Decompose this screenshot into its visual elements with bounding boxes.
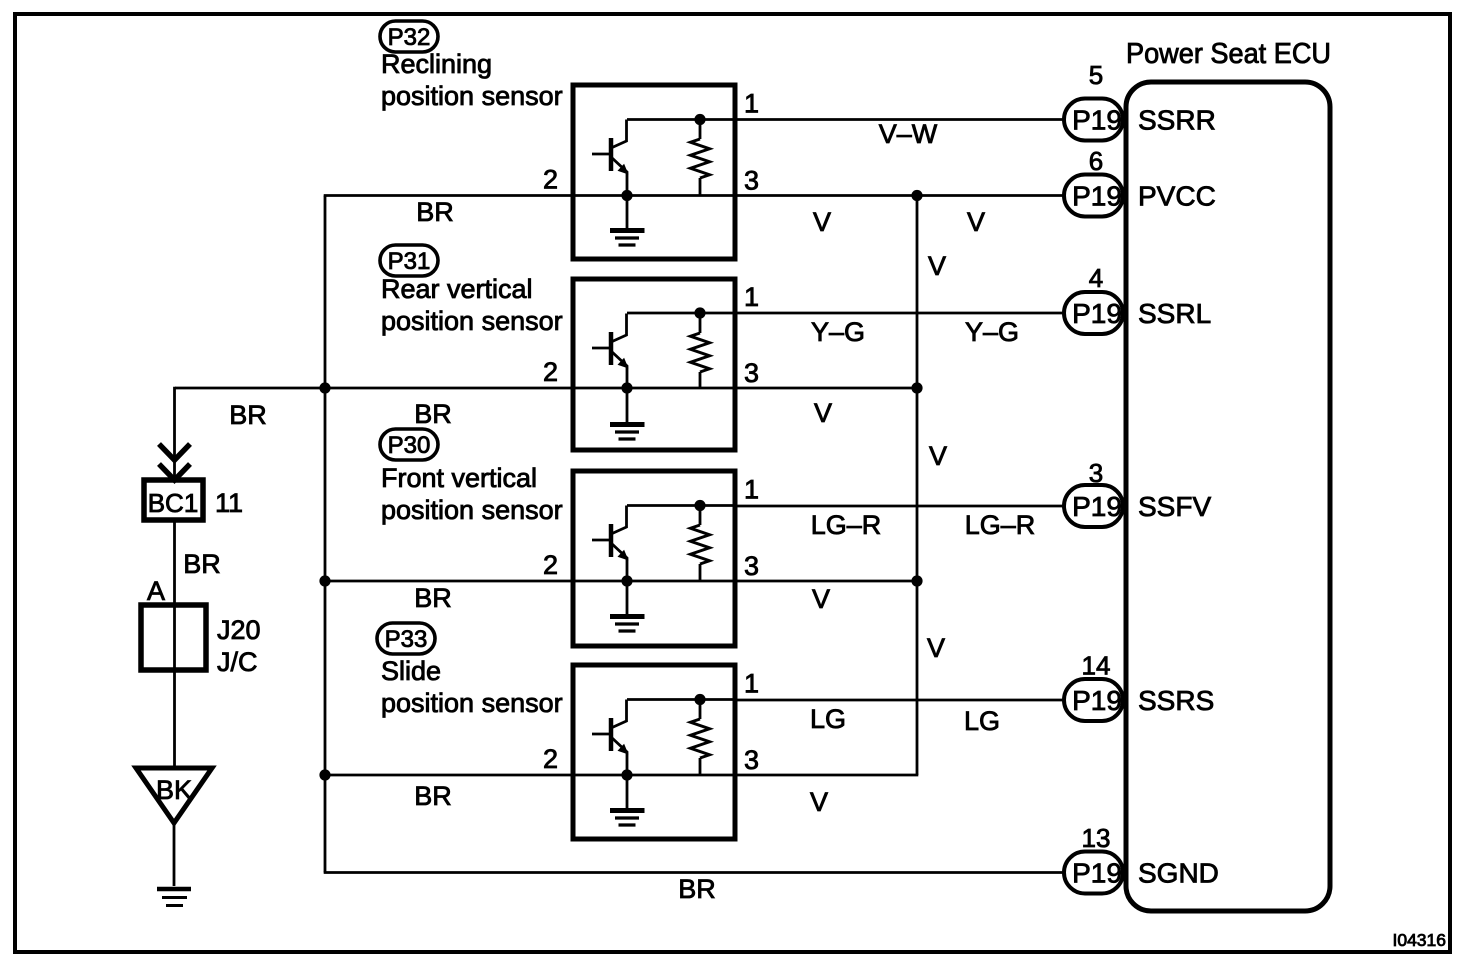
connector label oval P31 <box>380 245 438 276</box>
wire P31 pin3 V to bus <box>735 387 917 390</box>
svg-text:position sensor: position sensor <box>381 495 563 525</box>
svg-text:A: A <box>147 576 165 606</box>
transistor Q3 in P30 <box>592 506 629 582</box>
svg-text:J/C: J/C <box>217 647 258 677</box>
svg-text:2: 2 <box>543 744 558 774</box>
wire SGND BR: trunk to P19 pin13 <box>324 871 1064 874</box>
svg-text:P30: P30 <box>388 432 431 459</box>
svg-text:BK: BK <box>156 775 192 805</box>
svg-text:P19: P19 <box>1072 181 1122 212</box>
junction node emitter/rail in P32 <box>621 190 632 201</box>
svg-text:BR: BR <box>678 874 716 904</box>
svg-text:Reclining: Reclining <box>381 49 492 79</box>
svg-text:PVCC: PVCC <box>1138 181 1216 212</box>
transistor Q2 in P31 <box>592 314 629 390</box>
wire pin 2 to pin 3 rail inside P33 <box>573 774 735 777</box>
connector label oval P32 <box>380 21 438 52</box>
transistor Q4 in P33 <box>592 700 629 776</box>
wire PVCC V: P32 pin3 to P19 pin6 <box>735 194 1064 197</box>
wire BK to ground <box>173 823 176 886</box>
connector P19 pin 14 (SSRS) <box>1064 679 1123 721</box>
junction node trunk/P33 pin2 <box>319 769 330 780</box>
ground symbol in P33 <box>610 775 645 825</box>
svg-text:I04316: I04316 <box>1392 930 1446 950</box>
resistor R2 in P31 <box>691 314 710 390</box>
connector P19 pin 13 (SGND) <box>1064 852 1123 894</box>
wire BR: BC1 to J20 <box>173 520 176 605</box>
svg-text:LG–R: LG–R <box>811 510 882 540</box>
wire collector to pin 1 inside P33 <box>627 698 735 701</box>
svg-text:BC1: BC1 <box>148 488 199 518</box>
svg-text:1: 1 <box>744 89 759 119</box>
ground symbol (body ground) <box>157 889 191 906</box>
svg-text:2: 2 <box>543 165 558 195</box>
junction node bus/PVCC <box>911 190 922 201</box>
wire collector to pin 1 inside P30 <box>627 504 735 507</box>
svg-text:V: V <box>928 251 946 281</box>
connector BC1 box <box>144 480 203 520</box>
svg-text:V: V <box>812 584 830 614</box>
svg-text:P19: P19 <box>1072 298 1122 329</box>
svg-text:SSRS: SSRS <box>1138 685 1214 716</box>
svg-text:2: 2 <box>543 357 558 387</box>
svg-text:4: 4 <box>1089 263 1103 293</box>
sensor box P33 Slide position sensor outline <box>573 665 735 839</box>
svg-text:2: 2 <box>543 550 558 580</box>
junction node trunk/branch BR <box>319 382 330 393</box>
svg-text:V: V <box>927 633 945 663</box>
connector arrows (double chevron) above BC1 <box>159 444 190 480</box>
svg-text:position sensor: position sensor <box>381 688 563 718</box>
wire pin 2 to pin 3 rail inside P31 <box>573 387 735 390</box>
svg-text:P31: P31 <box>388 248 431 275</box>
sensor box P32 Reclining position sensor outline <box>573 85 735 259</box>
connector P19 pin 5 (SSRR) <box>1064 99 1123 141</box>
svg-text:3: 3 <box>744 358 759 388</box>
svg-text:BR: BR <box>229 400 267 430</box>
junction node pin1/resistor in P33 <box>694 694 705 705</box>
svg-text:Front vertical: Front vertical <box>381 463 537 493</box>
svg-text:P19: P19 <box>1072 105 1122 136</box>
wire pin 2 to pin 3 rail inside P32 <box>573 194 735 197</box>
junction node trunk/P30 pin2 <box>319 575 330 586</box>
svg-text:P33: P33 <box>385 626 428 653</box>
svg-text:1: 1 <box>744 282 759 312</box>
connector label oval P30 <box>380 429 438 460</box>
wire SSRL Y-G: sensor P31 pin1 to P19 pin4 <box>735 312 1064 315</box>
wire P30 pin3 V to bus <box>735 580 917 583</box>
svg-text:P19: P19 <box>1072 685 1122 716</box>
sensor box P31 Rear vertical position sensor outline <box>573 279 735 450</box>
svg-text:V: V <box>814 398 832 428</box>
junction node emitter/rail in P33 <box>621 769 632 780</box>
junction node bus/P31 pin3 <box>911 382 922 393</box>
wire branch down to BC1 <box>173 387 176 480</box>
wire pin 2 to pin 3 rail inside P30 <box>573 580 735 583</box>
svg-text:Y–G: Y–G <box>811 317 865 347</box>
wire BR trunk vertical <box>324 196 327 873</box>
svg-text:SGND: SGND <box>1138 858 1219 889</box>
svg-text:3: 3 <box>1089 458 1103 488</box>
transistor Q1 in P32 <box>592 120 629 196</box>
wire SSRS LG: sensor P33 pin1 to P19 pin14 <box>735 699 1064 702</box>
svg-text:5: 5 <box>1089 60 1103 90</box>
svg-text:Rear vertical: Rear vertical <box>381 274 533 304</box>
wire BR: trunk to P32 pin2 <box>324 194 573 197</box>
svg-text:V: V <box>813 207 831 237</box>
resistor R1 in P32 <box>691 120 710 196</box>
junction node pin1/resistor in P31 <box>694 307 705 318</box>
svg-text:1: 1 <box>744 669 759 699</box>
svg-text:Y–G: Y–G <box>965 317 1019 347</box>
wire through J20 <box>173 605 176 670</box>
svg-text:V: V <box>967 207 985 237</box>
svg-text:BR: BR <box>414 399 452 429</box>
svg-text:3: 3 <box>744 551 759 581</box>
connector label oval P33 <box>377 623 435 654</box>
wire BR: trunk to P33 pin2 <box>325 774 573 777</box>
svg-text:position sensor: position sensor <box>381 306 563 336</box>
wire collector to pin 1 inside P31 <box>627 312 735 315</box>
wire BR: trunk to P30 pin2 <box>325 580 573 583</box>
svg-text:SSFV: SSFV <box>1138 491 1211 522</box>
svg-text:6: 6 <box>1089 146 1103 176</box>
ground point triangle BK <box>136 768 212 823</box>
resistor R4 in P33 <box>691 700 710 776</box>
svg-text:position sensor: position sensor <box>381 81 563 111</box>
svg-text:SSRR: SSRR <box>1138 105 1216 136</box>
svg-text:V: V <box>929 441 947 471</box>
svg-text:LG: LG <box>810 704 846 734</box>
junction node bus/P30 pin3 <box>911 575 922 586</box>
junction block J20 J/C box <box>141 605 206 670</box>
svg-text:1: 1 <box>744 475 759 505</box>
svg-text:3: 3 <box>744 166 759 196</box>
svg-text:3: 3 <box>744 745 759 775</box>
sensor box P30 Front vertical position sensor outline <box>573 471 735 646</box>
svg-text:BR: BR <box>416 197 454 227</box>
svg-text:J20: J20 <box>217 615 261 645</box>
svg-text:14: 14 <box>1082 651 1111 681</box>
svg-text:Power Seat ECU: Power Seat ECU <box>1126 38 1331 70</box>
wire P33 pin3 V to bus bottom <box>735 774 918 777</box>
svg-text:SSRL: SSRL <box>1138 298 1211 329</box>
wire BR: branch to P31 pin2 <box>175 387 573 390</box>
ground symbol in P31 <box>610 388 645 439</box>
svg-text:11: 11 <box>215 488 243 518</box>
svg-text:LG–R: LG–R <box>965 510 1036 540</box>
svg-text:P19: P19 <box>1072 491 1122 522</box>
ground symbol in P32 <box>610 196 645 246</box>
wire J20 to BK triangle <box>173 670 176 768</box>
junction node pin1/resistor in P32 <box>694 114 705 125</box>
svg-text:P32: P32 <box>388 24 431 51</box>
resistor R3 in P30 <box>691 506 710 582</box>
svg-text:BR: BR <box>183 549 221 579</box>
svg-text:BR: BR <box>414 781 452 811</box>
connector P19 pin 4 (SSRL) <box>1064 292 1123 334</box>
junction node emitter/rail in P31 <box>621 382 632 393</box>
junction node pin1/resistor in P30 <box>694 500 705 511</box>
svg-text:P19: P19 <box>1072 858 1122 889</box>
svg-text:LG: LG <box>964 706 1000 736</box>
svg-text:V–W: V–W <box>879 119 938 149</box>
wire SSFV LG-R: sensor P30 pin1 to P19 pin3 <box>735 505 1064 508</box>
ground symbol in P30 <box>610 581 645 631</box>
svg-text:BR: BR <box>414 583 452 613</box>
svg-text:Slide: Slide <box>381 656 441 686</box>
svg-text:13: 13 <box>1082 823 1111 853</box>
wire bus V vertical <box>916 196 919 776</box>
ECU block Power Seat ECU <box>1126 82 1330 911</box>
connector P19 pin 6 (PVCC) <box>1064 175 1123 217</box>
wire collector to pin 1 inside P32 <box>627 118 735 121</box>
connector P19 pin 3 (SSFV) <box>1064 485 1123 527</box>
wire SSRR V-W: sensor P32 pin1 to P19 pin5 <box>735 118 1064 121</box>
svg-text:V: V <box>810 787 828 817</box>
junction node emitter/rail in P30 <box>621 575 632 586</box>
